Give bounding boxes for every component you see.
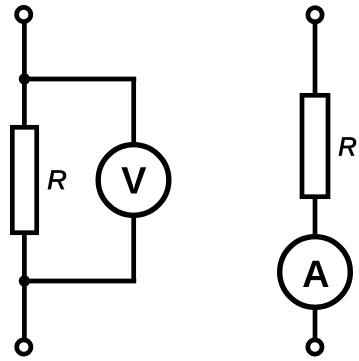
wire ammeter A1 to terminal T4 xyxy=(313,306,318,340)
svg-text:R: R xyxy=(338,133,356,161)
resistor R2 xyxy=(302,95,328,196)
terminal T2 (left circuit, bottom) xyxy=(17,340,31,354)
terminal T4 (right circuit, bottom) xyxy=(308,340,322,354)
svg-text:R: R xyxy=(47,165,67,195)
voltmeter V1 xyxy=(98,145,169,216)
wire node A to resistor R1 top xyxy=(22,79,27,127)
wire resistor R1 bottom to node B xyxy=(22,235,27,282)
wire node A to voltmeter branch (horizontal top) xyxy=(24,77,136,82)
node A (top junction) xyxy=(19,73,30,84)
terminal T1 (left circuit, top) xyxy=(17,7,31,21)
resistor R1 xyxy=(12,127,36,232)
svg-text:V: V xyxy=(121,160,147,202)
ammeter A1 xyxy=(280,237,351,308)
node B (bottom junction) xyxy=(19,275,30,286)
wire voltmeter branch to node B (horizontal bottom) xyxy=(24,279,136,284)
wire resistor R2 to ammeter A1 xyxy=(313,197,318,238)
wire node B to terminal T2 xyxy=(22,281,27,340)
wire T1 to node A xyxy=(22,22,27,80)
terminal T3 (right circuit, top) xyxy=(308,8,322,22)
wire voltmeter branch down to V1 xyxy=(131,79,136,146)
wire T3 to resistor R2 xyxy=(313,22,318,95)
svg-text:A: A xyxy=(302,254,329,296)
wire V1 down to bottom horizontal xyxy=(131,214,136,281)
